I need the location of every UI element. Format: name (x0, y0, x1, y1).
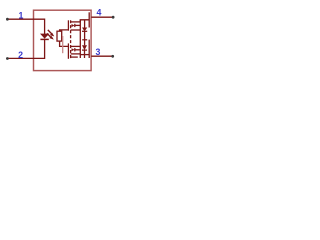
source bus (79, 20, 81, 58)
bottom source line (70, 56, 78, 58)
upper gate bar (67, 20, 69, 30)
pink marker line (62, 36, 64, 53)
top rail (80, 20, 89, 22)
upper body diode triangle (72, 24, 75, 27)
photodiode 2 triangle (82, 45, 87, 50)
upper drain stub (71, 21, 81, 23)
lower source stub (71, 45, 81, 47)
stack bottom lead (84, 50, 86, 58)
pin 2 dot (6, 57, 9, 60)
middle bar (82, 39, 87, 41)
photodiode 2 bar (82, 49, 87, 51)
bottom rail line (80, 54, 89, 56)
lower drain stub (71, 53, 81, 55)
LED emission arrow 1 (48, 30, 53, 35)
pin 3 dot (111, 55, 114, 58)
pin 4 dot (112, 16, 115, 19)
resistor top stub to upper gate line (60, 30, 69, 31)
lower body diode triangle (72, 48, 75, 51)
lower gate bar (67, 43, 69, 58)
svg-text:2: 2 (18, 50, 23, 60)
LED D1 triangle (40, 34, 49, 39)
LED emission arrow 2 (47, 33, 52, 38)
photodiode 1 bar (82, 30, 87, 32)
pin 1 dot (6, 18, 9, 21)
pin 3 wire (91, 55, 112, 57)
resistor box (57, 31, 62, 41)
component body outline (34, 10, 92, 70)
lower body diode bar (74, 48, 76, 51)
svg-text:1: 1 (19, 10, 24, 20)
resistor bottom stub to lower gate line (60, 41, 69, 46)
svg-text:3: 3 (95, 47, 100, 57)
bottom rail (88, 40, 90, 58)
photodiode stack top lead (84, 20, 86, 28)
pin 4 wire (91, 16, 113, 18)
isolation/channel dashed line (70, 20, 72, 58)
pin 2 wire (8, 39, 45, 58)
right vertical upper (88, 12, 90, 27)
upper source stub (71, 29, 81, 31)
svg-text:4: 4 (96, 8, 101, 18)
photodiode 1 triangle (82, 28, 87, 32)
upper body diode bar (74, 24, 76, 27)
lower bulk line (75, 49, 81, 51)
LED cathode bar (40, 38, 48, 40)
stack lead below middle bar (84, 40, 86, 46)
pin 1 wire (8, 19, 45, 34)
upper bulk line (75, 24, 81, 26)
stack middle lead (84, 31, 86, 39)
